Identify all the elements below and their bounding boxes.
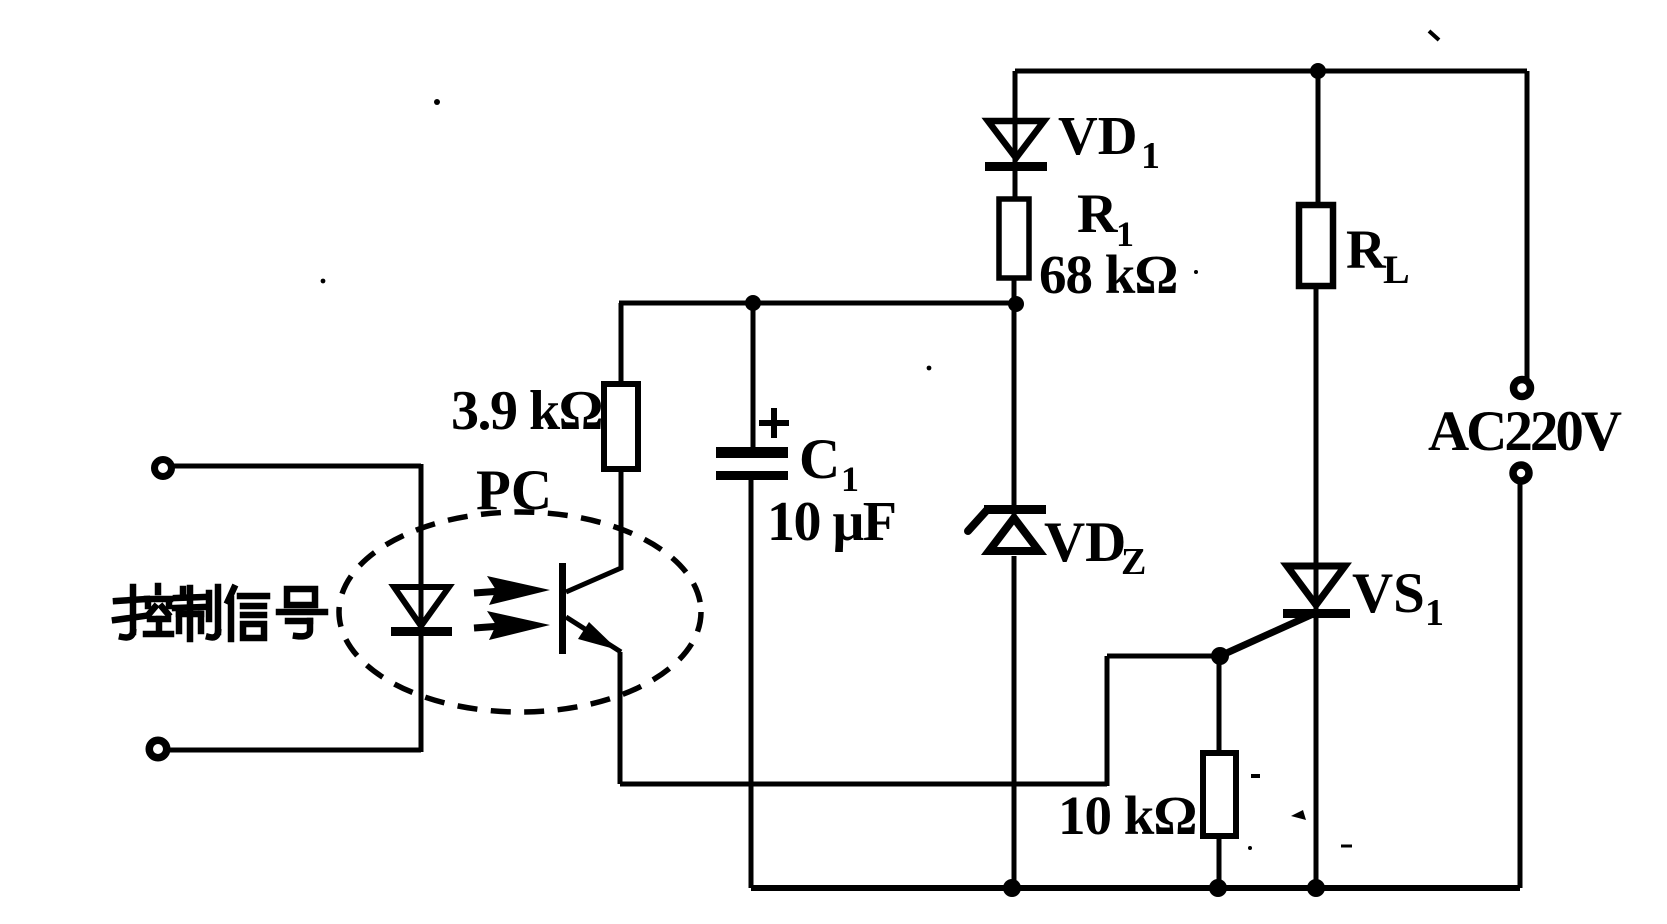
wire: 10k top lead <box>1217 656 1222 753</box>
speck <box>1429 31 1439 40</box>
wire: emitter down <box>618 652 623 784</box>
svg-text:C: C <box>799 428 840 491</box>
capacitor C1 <box>716 447 788 480</box>
junction: VDZ bottom node <box>1003 879 1021 897</box>
junction: 10k bottom node <box>1209 879 1227 897</box>
light arrow 2 <box>474 611 550 640</box>
wire: 10k bottom lead <box>1217 836 1222 888</box>
wire: top rail <box>1015 69 1527 74</box>
resistor 3.9 kOhm <box>604 384 638 469</box>
resistor R1 <box>999 199 1029 278</box>
svg-text:VS: VS <box>1352 562 1425 625</box>
resistor RL <box>1299 205 1333 286</box>
wire: LED cathode vertical <box>419 636 424 752</box>
speck <box>927 366 932 371</box>
junction: top rail RL node <box>1310 63 1326 79</box>
label: kongzhi xinhao (control signal) hand-drawn glyphs <box>115 586 325 639</box>
speck <box>321 279 326 284</box>
svg-text:VD: VD <box>1044 511 1126 574</box>
wire: gate diagonal to VS1 <box>1220 614 1313 656</box>
LED diode of optocoupler <box>391 587 452 636</box>
svg-text:PC: PC <box>476 459 552 522</box>
svg-text:10 μF: 10 μF <box>767 491 895 553</box>
speck <box>1341 845 1352 848</box>
wire: zener bottom lead <box>1012 556 1017 888</box>
svg-text:1: 1 <box>1425 592 1444 634</box>
wire: 3.9k riser <box>619 303 624 384</box>
wire: RL top lead <box>1316 71 1321 205</box>
thyristor VS1 <box>1283 566 1350 618</box>
wire: bottom rail <box>751 885 1520 891</box>
wire: emitter horizontal <box>620 782 1107 787</box>
speck <box>434 99 440 105</box>
diode VD1 <box>985 121 1047 171</box>
wire: gate horizontal <box>1107 654 1220 659</box>
junction: gate node <box>1211 647 1229 665</box>
wire: input bottom <box>169 748 421 753</box>
resistor 10 kOhm <box>1203 753 1236 836</box>
junction: C1 top node <box>745 295 761 311</box>
phototransistor base bar <box>559 563 566 654</box>
svg-text:VD: VD <box>1058 105 1137 166</box>
wire: LED anode vertical <box>419 464 424 632</box>
zener diode VDZ <box>968 505 1046 551</box>
svg-text:Z: Z <box>1121 541 1146 583</box>
wire: zener top lead <box>1012 305 1017 521</box>
wire: R1 bottom lead <box>1012 278 1017 305</box>
junction: R1 / rail node <box>1008 296 1024 312</box>
terminal: input bottom <box>149 740 167 758</box>
speck <box>1251 774 1260 778</box>
wire: VS1 cathode lead <box>1314 618 1319 888</box>
terminal: AC top <box>1514 380 1531 397</box>
wire: AC bottom drop <box>1518 482 1523 888</box>
svg-text:10 kΩ: 10 kΩ <box>1058 785 1196 846</box>
wire: C1 bottom lead <box>749 480 754 888</box>
plus polarity mark <box>759 408 789 438</box>
wire: DC plus rail <box>619 301 1016 306</box>
wire: VD1 anode lead <box>1013 71 1018 165</box>
glyph: kong <box>115 586 171 637</box>
junction: VS1 bottom node <box>1307 879 1325 897</box>
wire: C1 top lead <box>751 303 756 448</box>
wire: gate riser <box>1105 656 1110 786</box>
phototransistor collector <box>566 467 621 592</box>
speck <box>1248 846 1252 850</box>
terminal: input top <box>155 460 172 477</box>
svg-text:3.9 kΩ: 3.9 kΩ <box>451 380 602 442</box>
svg-text:L: L <box>1383 247 1410 292</box>
light arrow 1 <box>474 576 550 605</box>
svg-text:AC220V: AC220V <box>1428 400 1622 463</box>
optocoupler PC dashed outline <box>339 512 701 712</box>
svg-text:68 kΩ: 68 kΩ <box>1039 244 1177 305</box>
wire: AC right drop <box>1525 71 1530 379</box>
glyph: zhi <box>175 587 218 639</box>
glyph: hao <box>279 589 325 636</box>
svg-text:R: R <box>1077 183 1118 245</box>
terminal: AC bottom <box>1513 465 1529 481</box>
glyph: xin <box>228 588 267 639</box>
svg-text:1: 1 <box>1141 135 1160 177</box>
svg-text:R: R <box>1346 219 1387 280</box>
wire: VD1 to R1 <box>1013 171 1018 199</box>
phototransistor emitter <box>566 617 621 652</box>
wire: RL to VS1 <box>1314 286 1319 613</box>
wire: input top <box>174 464 421 469</box>
speck <box>1194 270 1198 274</box>
speck <box>1291 810 1306 820</box>
